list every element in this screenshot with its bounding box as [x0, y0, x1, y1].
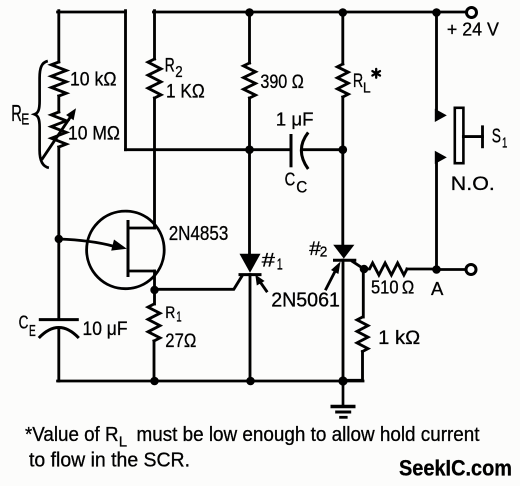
- wire SCR2 gate: [353, 262, 365, 270]
- transistor emitter arrowhead: [111, 240, 127, 251]
- wire RL branch to SCR2 anode: [341, 97, 344, 245]
- svg-text:SeekIC.com: SeekIC.com: [399, 455, 512, 480]
- transistor emitter wire: [59, 239, 114, 246]
- wire 390 branch to SCR1 anode: [248, 98, 251, 254]
- transistor Q1 2N4853 circle: [87, 211, 165, 289]
- node SCR2 gate junction dot: [360, 265, 369, 274]
- SCR #2 cathode bar: [333, 259, 356, 262]
- wire CC row left: [126, 148, 292, 151]
- node A junction dot: [432, 265, 441, 274]
- wire left rail between resistors: [57, 96, 60, 112]
- svg-text:N.O.: N.O.: [451, 173, 495, 195]
- svg-text:510 Ω: 510 Ω: [371, 277, 414, 298]
- switch S1 plunger bar: [455, 108, 464, 163]
- transistor base bar: [127, 220, 130, 277]
- capacitor CC 1uF right plate: [301, 132, 308, 169]
- wire SCR2 cathode down: [342, 260, 345, 381]
- wire R2 branch upper: [153, 11, 156, 59]
- svg-text:R: R: [353, 71, 363, 92]
- svg-text:*Value of R: *Value of R: [25, 424, 119, 446]
- terminal +24V circle: [467, 8, 477, 18]
- svg-text:390 Ω: 390 Ω: [260, 71, 303, 93]
- switch S1 lower contact: [435, 151, 447, 164]
- node bottom rail junction ground: [338, 376, 347, 385]
- svg-text:10 μF: 10 μF: [83, 318, 128, 340]
- svg-text:#: #: [262, 250, 276, 271]
- svg-text:2: 2: [320, 243, 328, 260]
- resistor 390 ohm: [244, 63, 256, 98]
- svg-text:C: C: [19, 313, 29, 333]
- svg-text:2N4853: 2N4853: [169, 223, 229, 245]
- svg-text:10 kΩ: 10 kΩ: [70, 69, 117, 91]
- asterisk RL: [372, 69, 380, 78]
- node top rail junction RL: [339, 8, 348, 17]
- node bottom rail junction R1: [150, 377, 159, 386]
- node CC row junction left: [245, 145, 254, 154]
- svg-text:A: A: [431, 278, 444, 299]
- wire base1 to junction: [153, 271, 156, 290]
- capacitor CC 1uF left plate: [290, 134, 293, 167]
- resistor R1 27 ohm: [148, 304, 160, 341]
- wire gate junction to 1k: [362, 269, 365, 317]
- wire node A to terminal: [437, 268, 467, 271]
- switch S1 actuator: [463, 135, 482, 138]
- svg-text:2: 2: [175, 64, 182, 81]
- svg-text:C: C: [296, 178, 307, 196]
- wire junction to R1: [153, 290, 156, 304]
- brace RE: [35, 61, 49, 168]
- node CC row junction right: [339, 145, 348, 154]
- wire 1k to bottom rail: [343, 352, 363, 381]
- wire RL branch upper: [341, 12, 344, 64]
- svg-text:R: R: [165, 56, 175, 77]
- svg-text:1 μF: 1 μF: [276, 108, 314, 129]
- svg-text:1: 1: [277, 256, 283, 273]
- node bottom rail junction SCR1: [246, 377, 255, 386]
- svg-text:L: L: [363, 80, 371, 97]
- wire 390 branch upper: [248, 12, 251, 63]
- transistor base2 lead: [128, 227, 155, 230]
- ground symbol: [331, 381, 356, 417]
- potentiometer arrow: [43, 117, 71, 158]
- svg-text:10 MΩ: 10 MΩ: [68, 123, 120, 145]
- resistor R2 1 K ohm: [148, 59, 161, 98]
- svg-text:to flow in the SCR.: to flow in the SCR.: [29, 449, 190, 471]
- node base1 junction dot: [150, 286, 158, 294]
- resistor RL: [337, 64, 348, 97]
- pointer arrow to SCR1: [262, 284, 267, 291]
- wire SCR1 cathode down: [249, 275, 252, 381]
- wire left rail top: [57, 11, 60, 62]
- resistor 10 k ohm: [51, 62, 66, 96]
- wire left rail middle: [57, 147, 60, 320]
- wire CE to bottom rail: [57, 330, 60, 382]
- svg-text:R: R: [165, 303, 175, 322]
- capacitor CE top plate: [39, 318, 79, 321]
- pointer arrow to SCR2: [326, 272, 335, 289]
- node top rail junction 390: [245, 8, 254, 17]
- resistor 1 k ohm: [357, 317, 368, 352]
- wire SCR1 gate: [155, 276, 243, 289]
- terminal A circle: [466, 265, 476, 275]
- svg-text:E: E: [29, 323, 36, 340]
- svg-text:E: E: [21, 112, 29, 129]
- resistor 510 ohm: [364, 263, 407, 275]
- svg-text:S: S: [492, 125, 501, 147]
- svg-text:must be low enough to allow ho: must be low enough to allow hold current: [137, 424, 480, 446]
- wire main top rail: [154, 11, 467, 14]
- potentiometer 10 M ohm: [51, 112, 66, 147]
- wire R1 to bottom rail: [153, 341, 156, 381]
- svg-text:27Ω: 27Ω: [165, 330, 196, 352]
- transistor base1 lead: [128, 270, 155, 273]
- svg-text:+ 24 V: + 24 V: [447, 18, 500, 39]
- svg-text:L: L: [119, 433, 127, 450]
- svg-text:1 kΩ: 1 kΩ: [378, 327, 420, 349]
- wire CC row right: [303, 148, 343, 151]
- wire switch branch bottom: [435, 164, 438, 270]
- wire switch branch top: [435, 13, 438, 110]
- node emitter junction dot: [55, 235, 63, 243]
- SCR #1 cathode bar: [239, 273, 262, 276]
- wire top rail left segment: [58, 11, 126, 14]
- SCR #1 triangle: [240, 254, 261, 273]
- wire bottom rail: [58, 380, 363, 383]
- node top rail junction switch: [432, 8, 441, 17]
- svg-text:1: 1: [176, 309, 181, 326]
- capacitor CE bottom plate: [39, 328, 79, 339]
- svg-text:C: C: [285, 170, 296, 190]
- switch S1 upper contact: [435, 109, 447, 122]
- wire R2 branch to base2: [153, 98, 156, 228]
- svg-text:1 KΩ: 1 KΩ: [166, 82, 205, 103]
- svg-text:2N5061: 2N5061: [271, 289, 340, 311]
- wire left box right side: [124, 11, 127, 150]
- svg-text:1: 1: [502, 135, 507, 152]
- SCR #2 triangle: [333, 245, 354, 259]
- wire 510 to node A: [407, 268, 437, 271]
